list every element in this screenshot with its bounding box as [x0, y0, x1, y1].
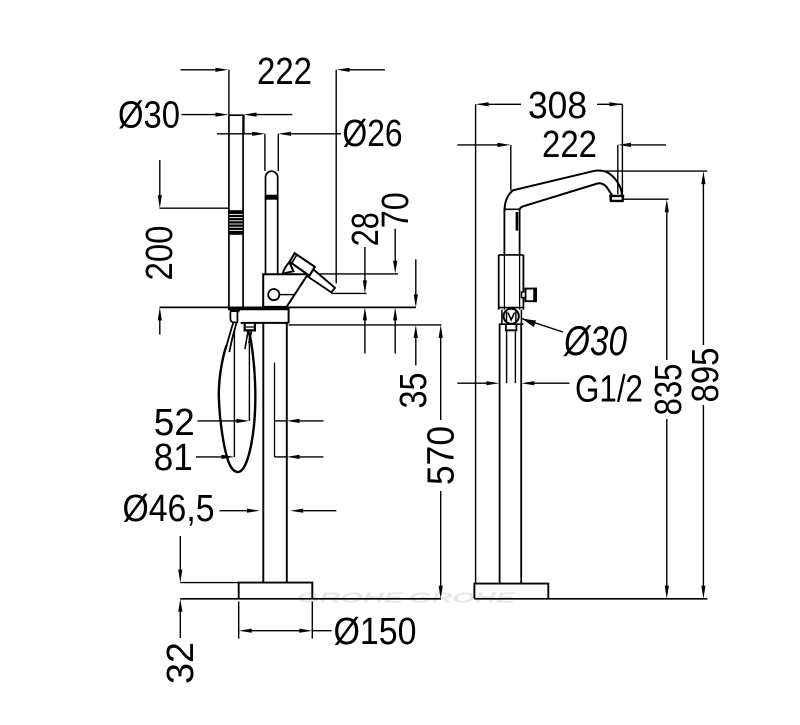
- shower head body: [230, 312, 237, 322]
- dim 70 arrow bottom: [393, 307, 397, 320]
- dim 222 top dimension line: [181, 69, 218, 71]
- dim 895 line: [702, 183, 704, 345]
- dim Ø30 leader arrow right view: [522, 319, 563, 332]
- svg-text:895: 895: [685, 348, 727, 403]
- dim Ø26 extensions: [264, 134, 266, 171]
- dim 81 extension shower axis: [233, 331, 235, 457]
- lever pivot wedge: [283, 262, 294, 274]
- shower hose upper: [226, 322, 233, 348]
- dim 222 left extension: [228, 70, 230, 115]
- dim 570 line: [440, 336, 442, 420]
- label 32: [160, 642, 202, 684]
- dim 32 top arrow: [179, 536, 181, 571]
- dim 200 bottom arrow: [158, 307, 162, 320]
- spout outlet face: [610, 196, 623, 201]
- svg-text:Ø46,5: Ø46,5: [123, 488, 215, 530]
- riser column: [262, 323, 264, 583]
- svg-text:G1/2: G1/2: [575, 369, 643, 411]
- dim Ø30 tick extension: [243, 115, 245, 134]
- mixer body: [263, 274, 308, 307]
- dim 28 arrow top: [364, 247, 366, 282]
- label 200: [139, 226, 181, 281]
- dim 52 right arrow: [275, 420, 287, 422]
- base plate side view: [474, 584, 548, 599]
- hand shower grip band: [229, 210, 244, 235]
- faucet body side view: [498, 255, 500, 310]
- reference line body top plane (70 dim): [307, 273, 398, 275]
- dim 35 arrow bottom: [414, 325, 418, 338]
- clamp ring inner detail: [506, 310, 508, 323]
- svg-text:222: 222: [257, 51, 312, 93]
- dim 32 bottom arrow: [178, 599, 182, 612]
- spout pipe outlet band: [265, 195, 279, 200]
- spout outer edge: [504, 170, 622, 212]
- svg-text:81: 81: [154, 437, 193, 479]
- hose holder bracket: [245, 324, 255, 331]
- arm block: [288, 307, 290, 323]
- shower hose loop: [219, 331, 255, 472]
- label 35: [393, 373, 435, 409]
- dim 308 left extension: [475, 104, 477, 583]
- dim Ø26 dimension line left: [217, 133, 254, 135]
- svg-text:Ø30: Ø30: [118, 94, 180, 136]
- dim 200 top arrow: [159, 160, 161, 197]
- dim 81 leader: [196, 456, 223, 458]
- collar below clamp: [506, 324, 517, 330]
- dim 308 right extension: [621, 104, 623, 196]
- dim Ø150 dimension line: [239, 629, 252, 633]
- dim Ø46.5 leader: [220, 510, 249, 512]
- svg-text:308: 308: [528, 85, 587, 127]
- spout pipe (front view): [266, 171, 278, 274]
- svg-text:32: 32: [160, 642, 202, 684]
- clamp ring Ø30: [504, 309, 519, 324]
- dim Ø46.5 right arrow: [290, 509, 303, 513]
- svg-text:70: 70: [375, 192, 417, 228]
- lever paddle: [290, 253, 315, 276]
- svg-text:200: 200: [139, 226, 181, 281]
- svg-text:222: 222: [542, 124, 597, 166]
- dim 52/81 extension riser axis: [274, 363, 276, 458]
- dim 835 top reference line: [622, 198, 668, 200]
- label 570: [420, 426, 462, 485]
- dim 52 leader: [198, 420, 239, 422]
- dim 200 top reference line: [160, 207, 229, 209]
- lever shaft: [309, 270, 336, 293]
- label 28: [345, 212, 387, 246]
- label 895: [685, 348, 727, 403]
- dim 28 arrow bottom: [363, 307, 367, 320]
- temperature knob: [526, 289, 535, 302]
- dim 222 right-view right arrow: [618, 143, 631, 147]
- svg-text:35: 35: [393, 373, 435, 409]
- dim 81 right arrow: [275, 456, 287, 458]
- dim Ø30 right arrow: [244, 113, 257, 117]
- svg-text:835: 835: [648, 364, 690, 416]
- dim Ø30 leader: [182, 114, 218, 116]
- label 70: [375, 192, 417, 228]
- label 835: [648, 364, 690, 416]
- base plane line: [160, 306, 416, 308]
- mixer body screw: [268, 289, 279, 300]
- dim G1/2 dimension line: [457, 382, 488, 384]
- dim 835 line: [666, 211, 668, 360]
- base plate: [239, 583, 313, 599]
- riser pipe side view: [503, 209, 505, 255]
- supply pipe outer: [499, 324, 501, 583]
- svg-text:Ø150: Ø150: [334, 611, 417, 653]
- hand shower rod: [228, 115, 230, 309]
- hose below bracket: [245, 331, 248, 349]
- mixer body bottom edge: [228, 307, 289, 310]
- supply pipe inner: [506, 330, 508, 383]
- dim Ø150 extensions: [238, 602, 240, 639]
- dim 222 right extension: [335, 70, 337, 284]
- floor line right: [474, 598, 707, 600]
- shower head dark cap: [229, 309, 241, 313]
- dim Ø26 dimension line right: [278, 132, 291, 136]
- dim 32 reference base top: [180, 582, 238, 584]
- dim 222 right-view extensions: [510, 145, 512, 191]
- dim 35 arrow top: [415, 259, 417, 296]
- dim 308 dimension line: [476, 102, 489, 106]
- clamp section: [501, 310, 503, 325]
- dim 895 top reference line: [601, 170, 708, 172]
- dim 70 arrow top: [394, 229, 396, 263]
- spout inner edge: [520, 183, 614, 209]
- svg-text:570: 570: [420, 426, 462, 485]
- floor line left: [180, 598, 441, 600]
- dim 52 extension hose axis: [248, 334, 250, 421]
- reference line arm bottom (35/570): [289, 324, 442, 326]
- reference line lever tip (28 dim): [332, 292, 367, 294]
- svg-text:Ø30: Ø30: [562, 317, 627, 364]
- svg-text:Ø26: Ø26: [343, 113, 403, 155]
- dim 222 right-view left arrow: [461, 144, 463, 146]
- riser seam mark: [516, 212, 519, 231]
